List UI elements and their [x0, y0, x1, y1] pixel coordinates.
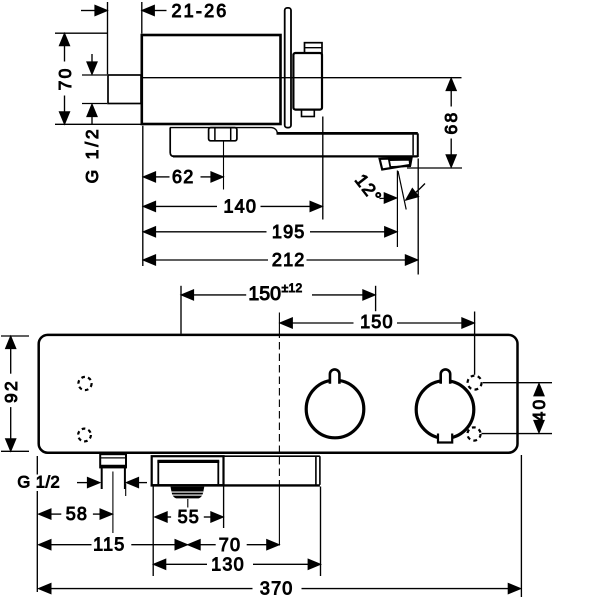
svg-text:G 1/2: G 1/2 [17, 474, 60, 492]
spout bottom edge [173, 155, 418, 157]
dimension 70 (body height) [55, 33, 141, 124]
dimension 212 [143, 250, 418, 270]
spout housing top line [170, 127, 272, 129]
extension line body right front [520, 455, 522, 597]
spout inner right line [217, 461, 219, 485]
spout block front [152, 456, 224, 485]
extension line body left face top [141, 2, 143, 34]
dimension 92 (body height front) [1, 336, 29, 451]
mounting nut (side) [209, 128, 237, 141]
spout tip inner line [412, 135, 414, 156]
dimension G1/2 union (side) [82, 54, 107, 183]
svg-text:62: 62 [172, 167, 194, 187]
dimension 130 [153, 554, 321, 574]
svg-text:150: 150 [360, 312, 394, 332]
svg-text:40: 40 [529, 397, 549, 421]
center axis line [142, 77, 462, 79]
svg-text:±12: ±12 [282, 281, 303, 295]
svg-text:55: 55 [178, 507, 200, 527]
G1/2 outlet stub [100, 454, 126, 489]
housing step to spout [272, 128, 278, 134]
dimension 55 [155, 507, 224, 527]
spout center line (dash-dot) [278, 313, 280, 546]
left knob top nub [330, 369, 340, 383]
aerator center line [187, 499, 189, 508]
svg-text:115: 115 [93, 535, 125, 555]
dimension G1/2 (front) [17, 474, 147, 492]
body front view [39, 335, 518, 453]
extension line outlet lower [482, 433, 553, 435]
wall plate [285, 8, 291, 128]
outlet level extension line [407, 167, 462, 169]
dimension 40 [529, 383, 549, 433]
spout top edge [277, 132, 418, 135]
extension line outlet upper [483, 382, 552, 384]
dimension 68 (spout drop) [441, 78, 461, 167]
svg-text:140: 140 [223, 196, 257, 216]
cover panel top edge [224, 455, 320, 457]
aerator mousseur front [171, 487, 205, 499]
stub center line [112, 472, 114, 534]
svg-text:68: 68 [441, 110, 461, 134]
right knob bottom tab [438, 432, 452, 443]
aerator nozzle (tilted 12deg) [380, 158, 412, 169]
spout inner left line [157, 461, 159, 485]
svg-text:195: 195 [272, 222, 306, 242]
housing left edge [170, 128, 174, 157]
screw hole lower left (dashed) [78, 429, 91, 442]
stub right extension [125, 484, 127, 496]
nut center line [223, 141, 225, 190]
dimension 195 [143, 222, 397, 242]
shower outlet lower (dashed) [467, 427, 480, 440]
dimension 21-26 (wall distance) [81, 1, 229, 21]
svg-text:150: 150 [248, 283, 281, 305]
right knob top nub [441, 369, 451, 383]
extension line inlet left [180, 286, 182, 334]
svg-text:21-26: 21-26 [171, 1, 228, 21]
extension line to shower outlet [474, 312, 476, 375]
extension line body left (below) [142, 126, 144, 266]
extension line body left front [36, 456, 38, 592]
svg-text:70: 70 [219, 535, 241, 555]
dimension 140 [143, 196, 323, 216]
extension line spout left front [152, 487, 154, 577]
svg-text:212: 212 [272, 250, 306, 270]
escutcheon bottom tab (side) [302, 110, 315, 117]
left knob circle [306, 380, 364, 438]
escutcheon sleeve [293, 53, 322, 110]
shower outlet upper (dashed) [468, 376, 482, 390]
dimension 115 [38, 535, 187, 555]
dimension 62 [143, 167, 224, 187]
svg-text:58: 58 [66, 504, 88, 524]
svg-text:92: 92 [1, 379, 21, 403]
extension line wall face [322, 117, 324, 220]
extension line panel right front [320, 487, 322, 577]
spout inner top band [157, 460, 219, 463]
extension line spout right front [223, 487, 225, 529]
dimension 70 (front) [188, 535, 280, 555]
svg-text:70: 70 [55, 66, 75, 90]
right knob circle [416, 381, 474, 439]
dimension 150 (outlet spacing) [280, 312, 475, 332]
dimension 150 tolerance +-12 [181, 281, 375, 305]
extension line spout tip [417, 159, 419, 275]
cover panel right edge double [316, 456, 320, 485]
cover panel bottom edge [151, 484, 320, 486]
svg-text:370: 370 [260, 579, 294, 599]
angle 12deg annotation [351, 170, 425, 247]
svg-text:130: 130 [211, 554, 245, 574]
extension line union left face [107, 2, 109, 74]
extension line inlet right [375, 286, 377, 311]
svg-text:12°: 12° [351, 170, 386, 207]
dimension 370 [38, 579, 520, 599]
valve body (side view) [142, 35, 281, 124]
union connector G1/2 (side) [108, 75, 141, 104]
screw hole upper left (dashed) [78, 377, 91, 390]
dimension 58 [38, 504, 112, 524]
spout tip outer edge [417, 133, 419, 157]
svg-text:G 1/2: G 1/2 [82, 127, 102, 184]
escutcheon top tab (handle nub side) [305, 43, 323, 53]
